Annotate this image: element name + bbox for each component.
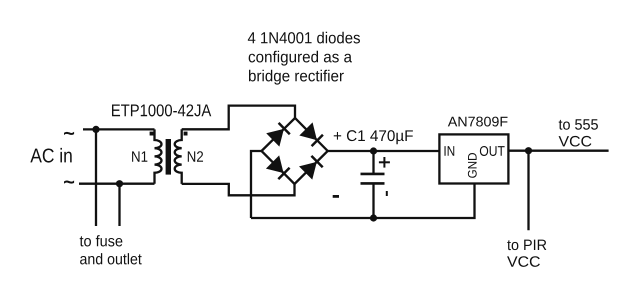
wire: N2 bottom lead to bridge AC input 2 (182, 184, 295, 195)
wire: bottom negative rail to regulator GND (251, 184, 475, 219)
label: to fuse (80, 235, 123, 246)
diode D1 (bridge left to top) (267, 123, 290, 146)
label: and outlet (80, 253, 142, 264)
node: junction on bottom AC wire (116, 180, 123, 187)
label: transformer part number ETP1000-42JA (112, 104, 211, 116)
wire: regulator OUT to 555 (508, 150, 608, 152)
diode D4 (bridge bottom to right) (300, 156, 323, 179)
capacitor C1 negative tick (386, 191, 388, 196)
bridge rectifier diamond (262, 118, 328, 184)
label: capacitor + C1 470uF (334, 130, 413, 144)
diode D3 (bridge left to bottom) (267, 156, 290, 179)
wire: drop to outlet from bottom AC (118, 184, 120, 226)
wire: N2 top lead to bridge AC input 1 (182, 106, 295, 130)
transformer core (166, 139, 171, 175)
label: regulator pin GND (rotated) (468, 153, 477, 178)
label: regulator pin IN (444, 146, 454, 156)
label: VCC for 555 (559, 136, 592, 147)
label: regulator pin OUT (480, 146, 505, 156)
symbol: AC tilde top (64, 132, 73, 134)
regulator U1 AN7809F box (439, 134, 508, 183)
label: winding N1 (132, 151, 147, 161)
bridge negative output label - (333, 195, 339, 198)
transformer phase dot N2 (184, 132, 188, 136)
note: bridge description line 2 (249, 51, 352, 66)
node: capacitor top junction on + rail (370, 147, 377, 154)
capacitor C1 polarity + mark (379, 157, 390, 168)
wire: positive rail bridge to regulator IN (328, 150, 440, 152)
node: junction on top AC wire (92, 126, 99, 133)
symbol: AC tilde bottom (64, 181, 73, 183)
diode D2 (bridge top to right) (300, 123, 323, 146)
label: AC in (30, 148, 71, 163)
label: regulator part number AN7809F (448, 117, 508, 127)
transformer T1 primary winding N1 (155, 129, 162, 183)
wire: bottom AC feed (79, 183, 155, 185)
transformer T1 secondary winding N2 (175, 129, 182, 184)
node: regulator output junction (525, 147, 532, 154)
capacitor C1 bottom plate (361, 182, 385, 185)
wire: bridge negative output to bottom rail (251, 151, 262, 218)
label: VCC for PIR (507, 256, 540, 267)
wire: drop to PIR VCC (527, 151, 529, 231)
note: bridge description line 3 (249, 70, 344, 85)
label: winding N2 (188, 151, 203, 161)
note: bridge description line 1 (248, 32, 360, 44)
wire: top AC feed (83, 128, 155, 130)
label: to PIR (507, 240, 546, 250)
transformer phase dot N1 (150, 132, 154, 136)
wire: drop to fuse from top AC (95, 129, 97, 226)
capacitor C1 top plate (361, 173, 385, 176)
label: to 555 (559, 119, 598, 129)
node: capacitor bottom junction on - rail (370, 214, 377, 221)
wire: capacitor C1 bottom lead (372, 184, 374, 218)
wire: capacitor C1 top lead (372, 151, 374, 173)
